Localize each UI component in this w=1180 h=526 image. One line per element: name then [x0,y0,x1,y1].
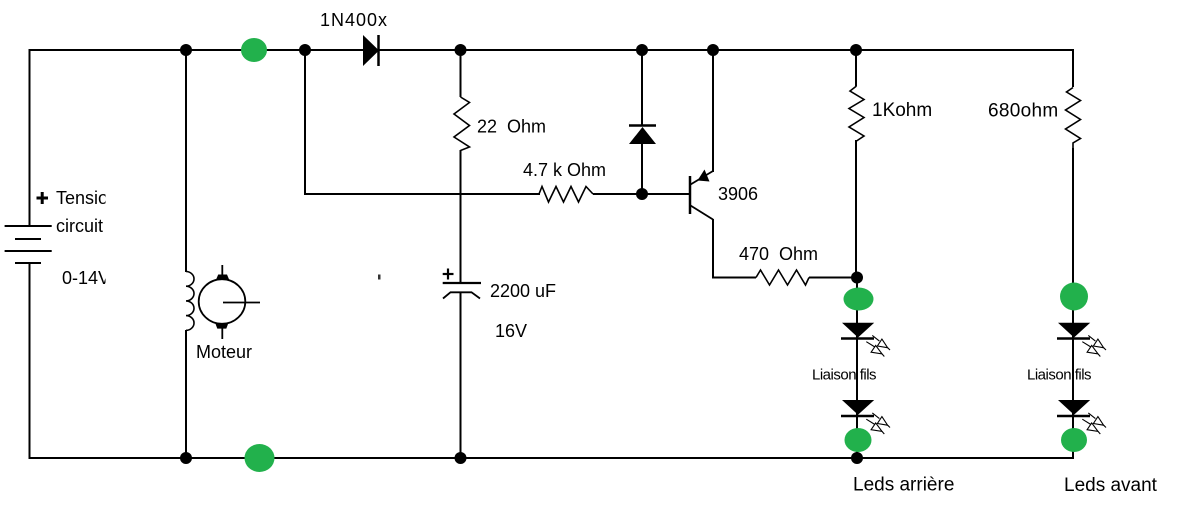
wire battery top lead [29,49,31,226]
capacitor C1 bottom plate (curved) [443,292,480,298]
LED D3 emission arrows [866,335,890,356]
green node (right chain bottom) [1061,428,1087,452]
svg-text:3906: 3906 [718,184,758,204]
motor M1 body [199,279,246,324]
capacitor C1 top plate [443,282,481,284]
wire emitter vertical [712,50,714,172]
wire capacitor bottom lead [460,292,462,458]
wire 680 bottom lead [1072,148,1074,458]
wire bottom rail [30,457,1075,459]
LED D6 emission arrows [1082,413,1106,434]
motor bottom brush [215,324,228,340]
capacitor C1 plus sign [443,269,454,280]
wire diode branch top [641,50,643,126]
node junction (713,50) [707,44,719,56]
wire base feed left [304,193,540,195]
node junction (857,278) [851,272,863,284]
resistor R5 680ohm zigzag [1066,88,1081,149]
svg-text:Liaison fils: Liaison fils [812,367,876,384]
LED D3 (left chain upper) [841,323,874,339]
svg-text:Moteur: Moteur [196,342,252,362]
svg-text:22 Ohm: 22 Ohm [477,117,546,137]
wire collector vertical [712,219,714,278]
green node (bottom rail left) [245,444,275,472]
resistor R1 22 Ohm zigzag [454,97,470,151]
svg-text:Leds arrière: Leds arrière [853,475,954,496]
svg-text:1N400x: 1N400x [320,10,388,30]
battery B1 [5,226,52,263]
diode D2 (flyback) [629,126,656,145]
wire base feed right [593,193,690,195]
motor top brush [216,265,229,280]
transistor Q1 base bar [689,176,692,214]
node junction (305,50) [299,44,311,56]
wire 22ohm to capacitor [460,150,462,283]
node junction (642,50) [636,44,648,56]
inductor motor coil [186,272,194,331]
wire top rail right corner down [1072,49,1074,87]
svg-text:16V: 16V [495,321,527,341]
node junction (186,50) [180,44,192,56]
green node (left chain top) [844,288,874,311]
svg-text:1Kohm: 1Kohm [872,100,932,121]
wire motor branch bottom [185,330,187,458]
motor shaft line [223,302,260,304]
resistor R3 470 Ohm zigzag [756,270,809,285]
battery label 0-14V (clipped) [62,268,110,288]
wire battery bottom lead [29,263,31,459]
green node (left chain bottom) [845,428,872,452]
svg-text:Liaison fils: Liaison fils [1027,367,1091,384]
node junction (857,458) [851,452,863,464]
svg-text:0-14V: 0-14V [62,268,110,288]
LED D4 emission arrows [866,413,890,434]
LED D4 (left chain lower) [841,400,874,416]
node junction (186,458) [180,452,192,464]
battery label Tension (clipped) [56,188,108,208]
wire 470 to node [809,277,857,279]
LED D5 (right chain upper) [1057,323,1090,339]
resistor R4 1Kohm zigzag [849,86,864,141]
wire motor branch top [185,50,187,272]
svg-text:470 Ohm: 470 Ohm [739,244,818,264]
wire collector horizontal [712,277,756,279]
LED D6 (right chain lower) [1057,400,1090,416]
wire 1K bottom lead [855,140,857,278]
LED D5 emission arrows [1082,335,1106,356]
transistor Q1 emitter diagonal [691,171,714,185]
svg-text:680ohm: 680ohm [988,101,1058,122]
green node (right chain top) [1060,283,1088,311]
battery label circuit (clipped) [56,216,103,236]
node junction (856,50) [850,44,862,56]
wire top rail [30,49,1074,51]
svg-text:Tensio: Tensio [56,188,108,208]
stray mark [378,275,381,280]
wire drop from node 305 [304,50,306,195]
transistor Q1 emitter arrow [698,170,710,182]
transistor Q1 collector diagonal [691,206,714,220]
wire 1K top lead [855,50,857,86]
battery plus sign [37,192,49,204]
green node (top rail left) [241,38,267,62]
svg-text:4.7 k Ohm: 4.7 k Ohm [523,160,606,180]
resistor R2 4.7k zigzag [539,187,593,203]
svg-text:2200 uF: 2200 uF [490,281,556,301]
diode D1 1N400x [363,35,379,66]
wire diode branch bottom [641,144,643,195]
svg-text:Leds avant: Leds avant [1064,475,1158,496]
node junction (642,194) [636,188,648,200]
node junction (460,458) [455,452,467,464]
svg-text:circuit: circuit [56,216,103,236]
wire 22ohm top lead [460,50,462,97]
node junction (460,50) [455,44,467,56]
wire LED chain left [856,278,858,458]
